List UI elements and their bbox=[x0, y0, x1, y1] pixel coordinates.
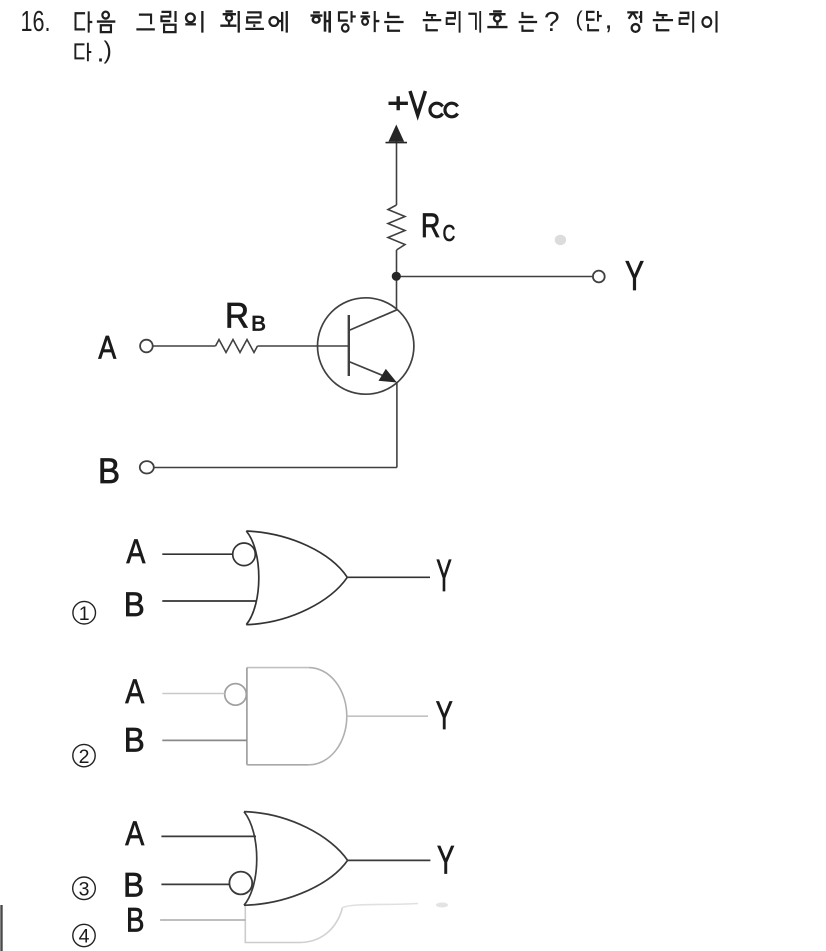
svg-text:R: R bbox=[421, 207, 441, 245]
svg-text:): ) bbox=[104, 38, 112, 65]
svg-text:2: 2 bbox=[79, 746, 90, 768]
svg-text:A: A bbox=[126, 533, 145, 571]
svg-text:4: 4 bbox=[79, 926, 90, 948]
svg-text:B: B bbox=[98, 452, 120, 491]
svg-text:B: B bbox=[124, 586, 145, 624]
svg-text:16.: 16. bbox=[21, 6, 51, 38]
svg-text:Y: Y bbox=[436, 694, 453, 738]
svg-text:3: 3 bbox=[79, 879, 90, 901]
svg-text:Y: Y bbox=[625, 252, 644, 299]
svg-text:B: B bbox=[126, 902, 145, 940]
svg-text:,: , bbox=[605, 4, 613, 36]
svg-text:B: B bbox=[251, 313, 266, 336]
svg-text:?: ? bbox=[544, 6, 560, 37]
svg-text:(: ( bbox=[576, 6, 584, 31]
svg-text:A: A bbox=[125, 673, 144, 711]
svg-text:A: A bbox=[98, 330, 116, 366]
svg-text:1: 1 bbox=[79, 603, 90, 625]
svg-text:A: A bbox=[125, 815, 144, 853]
svg-text:R: R bbox=[225, 297, 249, 336]
svg-text:B: B bbox=[124, 721, 145, 759]
svg-text:B: B bbox=[123, 866, 144, 904]
svg-text:Y: Y bbox=[436, 550, 452, 601]
svg-text:C: C bbox=[443, 220, 456, 246]
svg-text:Y: Y bbox=[437, 838, 455, 882]
